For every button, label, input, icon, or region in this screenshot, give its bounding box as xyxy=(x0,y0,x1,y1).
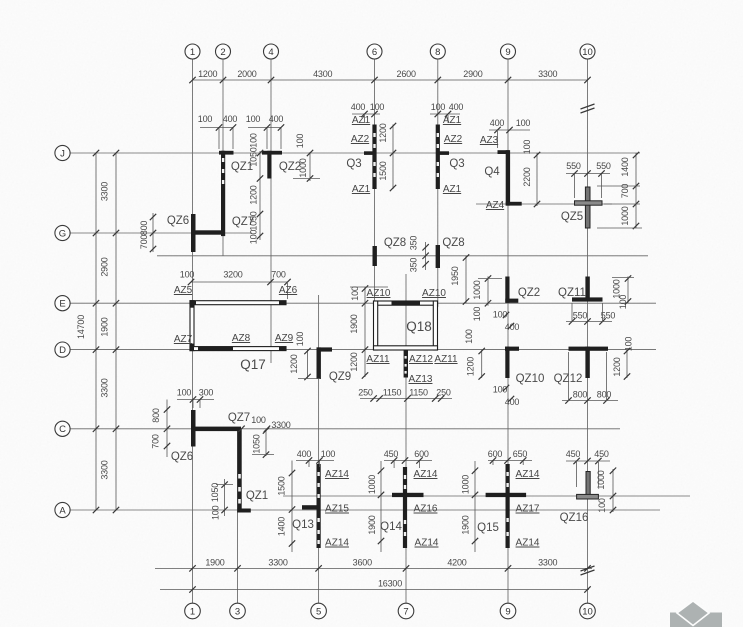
svg-text:QZ2: QZ2 xyxy=(518,287,540,299)
svg-text:Q18: Q18 xyxy=(406,319,432,334)
svg-text:7: 7 xyxy=(403,606,408,617)
svg-text:400: 400 xyxy=(351,102,366,112)
svg-text:3200: 3200 xyxy=(223,270,242,280)
svg-text:1050: 1050 xyxy=(252,434,262,453)
svg-text:E: E xyxy=(59,299,65,310)
svg-text:2: 2 xyxy=(220,47,225,58)
svg-text:AZ4: AZ4 xyxy=(486,200,505,211)
svg-text:C: C xyxy=(59,424,66,435)
svg-text:3300: 3300 xyxy=(538,558,557,568)
svg-text:3300: 3300 xyxy=(100,378,110,397)
svg-text:QZ9: QZ9 xyxy=(329,371,351,383)
svg-text:800: 800 xyxy=(151,408,161,423)
svg-text:550: 550 xyxy=(566,161,581,171)
svg-text:650: 650 xyxy=(513,449,528,459)
svg-text:AZ1: AZ1 xyxy=(443,184,462,195)
svg-text:700: 700 xyxy=(271,270,286,280)
svg-text:100: 100 xyxy=(350,286,360,301)
svg-text:Q3: Q3 xyxy=(346,158,361,170)
svg-text:6: 6 xyxy=(372,47,377,58)
svg-text:100: 100 xyxy=(597,498,607,513)
svg-text:10: 10 xyxy=(582,606,593,617)
svg-text:14700: 14700 xyxy=(76,315,86,339)
svg-text:QZ7: QZ7 xyxy=(232,216,254,228)
svg-text:AZ16: AZ16 xyxy=(414,504,438,515)
svg-text:AZ2: AZ2 xyxy=(351,134,370,145)
svg-text:100: 100 xyxy=(431,102,446,112)
svg-text:QZ5: QZ5 xyxy=(561,211,583,223)
svg-text:100: 100 xyxy=(295,134,305,149)
svg-text:1200: 1200 xyxy=(466,357,476,376)
svg-text:1400: 1400 xyxy=(277,517,287,536)
svg-text:Q4: Q4 xyxy=(484,166,500,178)
svg-text:100: 100 xyxy=(249,230,259,245)
svg-text:AZ13: AZ13 xyxy=(409,374,433,385)
svg-text:Q15: Q15 xyxy=(477,522,499,534)
svg-text:100: 100 xyxy=(516,118,531,128)
svg-text:4300: 4300 xyxy=(313,69,332,79)
svg-text:100: 100 xyxy=(246,114,261,124)
svg-text:AZ3: AZ3 xyxy=(480,135,499,146)
svg-text:QZ7: QZ7 xyxy=(228,412,250,424)
svg-text:G: G xyxy=(59,228,66,239)
svg-text:100: 100 xyxy=(522,140,532,155)
svg-text:250: 250 xyxy=(358,388,373,398)
svg-text:Q13: Q13 xyxy=(292,519,314,531)
svg-text:800: 800 xyxy=(139,221,149,236)
svg-text:1200: 1200 xyxy=(378,123,388,142)
svg-text:4200: 4200 xyxy=(447,558,466,568)
svg-text:QZ11: QZ11 xyxy=(558,287,586,299)
svg-text:QZ6: QZ6 xyxy=(171,451,193,463)
svg-text:1000: 1000 xyxy=(620,206,630,225)
svg-text:450: 450 xyxy=(566,449,581,459)
svg-text:400: 400 xyxy=(269,114,284,124)
svg-text:100: 100 xyxy=(493,310,508,320)
svg-text:AZ10: AZ10 xyxy=(422,288,446,299)
svg-text:1: 1 xyxy=(190,47,195,58)
svg-text:550: 550 xyxy=(601,311,616,321)
svg-text:1900: 1900 xyxy=(367,515,377,534)
svg-text:3300: 3300 xyxy=(538,69,557,79)
svg-text:3600: 3600 xyxy=(353,558,372,568)
svg-text:550: 550 xyxy=(596,161,611,171)
svg-text:AZ14: AZ14 xyxy=(516,538,540,549)
svg-text:3300: 3300 xyxy=(268,558,287,568)
svg-text:3: 3 xyxy=(235,606,240,617)
svg-text:Q14: Q14 xyxy=(380,521,402,533)
svg-text:1200: 1200 xyxy=(249,185,259,204)
svg-text:4: 4 xyxy=(268,47,273,58)
svg-text:100: 100 xyxy=(464,329,474,344)
svg-text:5: 5 xyxy=(316,606,321,617)
svg-text:QZ8: QZ8 xyxy=(442,237,464,249)
svg-text:1200: 1200 xyxy=(198,69,217,79)
svg-text:400: 400 xyxy=(490,118,505,128)
svg-text:AZ1: AZ1 xyxy=(352,115,371,126)
svg-text:100: 100 xyxy=(251,415,266,425)
svg-text:AZ14: AZ14 xyxy=(325,469,349,480)
svg-text:AZ6: AZ6 xyxy=(279,285,298,296)
svg-text:QZ8: QZ8 xyxy=(384,237,406,249)
svg-text:3300: 3300 xyxy=(271,420,290,430)
svg-text:1500: 1500 xyxy=(277,476,287,495)
svg-text:9: 9 xyxy=(505,606,510,617)
svg-text:AZ11: AZ11 xyxy=(434,354,458,365)
svg-text:800: 800 xyxy=(573,390,588,400)
svg-text:1000: 1000 xyxy=(298,158,308,177)
svg-text:2200: 2200 xyxy=(522,167,532,186)
svg-text:AZ14: AZ14 xyxy=(414,469,438,480)
svg-text:1150: 1150 xyxy=(409,388,428,398)
svg-text:AZ14: AZ14 xyxy=(415,538,439,549)
svg-text:AZ17: AZ17 xyxy=(516,504,540,515)
svg-text:300: 300 xyxy=(199,388,214,398)
svg-text:3300: 3300 xyxy=(100,182,110,201)
svg-text:1200: 1200 xyxy=(289,354,299,373)
svg-text:AZ2: AZ2 xyxy=(444,134,463,145)
svg-text:1200: 1200 xyxy=(612,357,622,376)
svg-text:AZ10: AZ10 xyxy=(367,288,391,299)
svg-text:100: 100 xyxy=(295,332,305,347)
svg-text:8: 8 xyxy=(435,47,440,58)
svg-text:400: 400 xyxy=(223,114,238,124)
svg-text:QZ12: QZ12 xyxy=(554,373,583,385)
svg-text:2900: 2900 xyxy=(100,257,110,276)
svg-text:450: 450 xyxy=(594,449,609,459)
svg-text:10: 10 xyxy=(582,47,593,58)
svg-text:1000: 1000 xyxy=(596,470,606,489)
svg-text:3300: 3300 xyxy=(100,460,110,479)
svg-text:100: 100 xyxy=(249,133,259,148)
svg-text:100: 100 xyxy=(198,114,213,124)
svg-text:1500: 1500 xyxy=(378,161,388,180)
svg-text:100: 100 xyxy=(211,505,221,520)
svg-text:1900: 1900 xyxy=(100,317,110,336)
svg-text:1900: 1900 xyxy=(461,515,471,534)
svg-text:100: 100 xyxy=(618,295,628,310)
svg-text:1050: 1050 xyxy=(249,147,259,166)
svg-text:100: 100 xyxy=(472,307,482,322)
svg-text:D: D xyxy=(59,345,66,356)
svg-text:700: 700 xyxy=(139,235,149,250)
svg-text:2600: 2600 xyxy=(397,69,416,79)
svg-text:AZ1: AZ1 xyxy=(352,184,371,195)
svg-text:1900: 1900 xyxy=(349,314,359,333)
svg-text:AZ14: AZ14 xyxy=(516,469,540,480)
svg-text:A: A xyxy=(59,505,66,516)
svg-text:600: 600 xyxy=(414,449,429,459)
svg-text:600: 600 xyxy=(488,449,503,459)
svg-text:100: 100 xyxy=(180,270,195,280)
svg-text:400: 400 xyxy=(449,102,464,112)
svg-text:1000: 1000 xyxy=(472,280,482,299)
svg-text:1000: 1000 xyxy=(461,475,471,494)
svg-text:AZ8: AZ8 xyxy=(232,333,251,344)
svg-text:1900: 1900 xyxy=(205,558,224,568)
svg-text:AZ11: AZ11 xyxy=(366,354,390,365)
svg-text:QZ1: QZ1 xyxy=(246,490,268,502)
svg-text:AZ12: AZ12 xyxy=(409,354,433,365)
svg-text:400: 400 xyxy=(505,322,520,332)
svg-text:J: J xyxy=(60,148,65,159)
svg-text:100: 100 xyxy=(177,388,192,398)
svg-text:QZ16: QZ16 xyxy=(560,512,589,524)
svg-text:1: 1 xyxy=(190,606,195,617)
svg-text:AZ1: AZ1 xyxy=(443,115,462,126)
svg-text:100: 100 xyxy=(321,449,336,459)
svg-text:Q3: Q3 xyxy=(449,158,464,170)
svg-text:2000: 2000 xyxy=(237,69,256,79)
svg-text:AZ5: AZ5 xyxy=(174,285,193,296)
svg-text:700: 700 xyxy=(151,434,161,449)
svg-text:1050: 1050 xyxy=(210,483,220,502)
svg-text:2900: 2900 xyxy=(463,69,482,79)
svg-text:16300: 16300 xyxy=(378,579,402,589)
svg-text:350: 350 xyxy=(409,236,419,251)
svg-text:AZ15: AZ15 xyxy=(325,504,349,515)
svg-text:450: 450 xyxy=(384,449,399,459)
svg-text:400: 400 xyxy=(297,449,312,459)
svg-text:1150: 1150 xyxy=(383,388,402,398)
svg-text:AZ9: AZ9 xyxy=(275,333,294,344)
svg-text:1000: 1000 xyxy=(367,475,377,494)
svg-text:QZ6: QZ6 xyxy=(167,215,189,227)
svg-text:1400: 1400 xyxy=(620,157,630,176)
svg-text:1200: 1200 xyxy=(349,352,359,371)
svg-text:350: 350 xyxy=(409,258,419,273)
svg-text:AZ7: AZ7 xyxy=(174,334,193,345)
svg-text:100: 100 xyxy=(370,102,385,112)
svg-text:AZ14: AZ14 xyxy=(325,538,349,549)
svg-text:9: 9 xyxy=(505,47,510,58)
svg-text:1950: 1950 xyxy=(450,266,460,285)
svg-text:Q17: Q17 xyxy=(240,357,266,372)
svg-text:QZ10: QZ10 xyxy=(516,373,545,385)
